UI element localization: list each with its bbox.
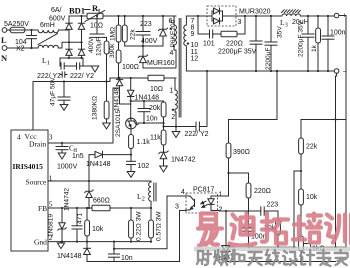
svg-text:222/ Y2: 222/ Y2 [185, 131, 209, 138]
diode 1N4148 (sense, horizontal) [86, 151, 131, 181]
wire fuse to choke [25, 29, 38, 31]
svg-text:2200μF 35V: 2200μF 35V [298, 20, 305, 57]
svg-text:1000V: 1000V [57, 164, 78, 171]
svg-text:9: 9 [191, 31, 195, 38]
svg-text:1k: 1k [311, 44, 318, 52]
svg-text:1N4148: 1N4148 [86, 161, 111, 168]
bridge bottom bus [60, 57, 83, 66]
svg-text:3: 3 [238, 19, 242, 26]
svg-text:1N4742: 1N4742 [64, 188, 71, 211]
aux winding pins 1-2 [170, 78, 178, 127]
svg-text:1.1k: 1.1k [137, 139, 151, 146]
winding L2 [137, 181, 156, 208]
capacitor 2200uF 35V #3 [298, 16, 315, 71]
capacitor 100n (output) [322, 16, 346, 71]
svg-text:1N4148: 1N4148 [57, 253, 82, 260]
IC IRIS4015 [11, 130, 53, 251]
resistor 22k (clamp) [122, 16, 136, 46]
svg-text:223: 223 [140, 21, 152, 28]
svg-text:390k: 390k [109, 43, 116, 58]
clamp return wire to pin4 [143, 50, 176, 68]
thermistor Rt 10ohm [85, 3, 105, 30]
resistor 1M [110, 16, 122, 42]
terminal - output [334, 69, 346, 247]
resistor 100ohm vertical [116, 42, 139, 79]
svg-text:Gnd: Gnd [34, 238, 47, 247]
svg-text:Source: Source [26, 178, 47, 187]
resistor 1k [311, 16, 321, 71]
svg-text:1380KΩ: 1380KΩ [92, 96, 99, 120]
capacitor 223 (fb) [261, 202, 278, 221]
svg-text:1N4742: 1N4742 [171, 157, 196, 164]
resistor 10ohm (Vcc) [148, 75, 176, 93]
ref tap wire [294, 171, 301, 247]
svg-text:12: 12 [191, 56, 199, 63]
svg-text:660Ω: 660Ω [93, 198, 110, 205]
svg-text:5: 5 [49, 200, 53, 209]
svg-text:101: 101 [203, 41, 215, 48]
ground wire (pin2) [48, 241, 152, 243]
secondary ground rail [186, 70, 334, 72]
svg-text:22k: 22k [306, 144, 318, 151]
main DC bus wire [96, 15, 176, 17]
svg-text:5A250V: 5A250V [4, 21, 29, 28]
svg-text:10n: 10n [146, 116, 158, 123]
BD1 diode top-right [78, 16, 84, 49]
watermark gray text 射频和天线设计专家 (vector) [197, 250, 348, 266]
transformer secondary winding [184, 16, 199, 71]
diode 1N4148 drain clamp [113, 79, 131, 144]
capacitor 10n (bottom) [109, 242, 133, 262]
resistor 0.22ohm 3W [129, 208, 143, 242]
capacitor 2200uF 35V #1 [218, 16, 262, 71]
diode 1N4148 (bottom) [84, 242, 91, 262]
terminal N [1, 46, 8, 63]
PC817 pin4 wire [113, 196, 186, 250]
svg-text:FB: FB [38, 204, 47, 213]
bottom rail (secondary) [226, 260, 336, 262]
bridge rectifier BD1 labels [49, 6, 90, 23]
svg-text:1N4148: 1N4148 [135, 95, 160, 102]
secondary top wire [186, 15, 207, 17]
svg-text:471: 471 [77, 213, 84, 224]
svg-text:X2: X2 [16, 46, 25, 53]
chassis ground below bridge [88, 66, 99, 72]
resistor 1kohm [299, 236, 346, 262]
capacitor 47uF 50V [50, 77, 71, 111]
svg-text:L: L [1, 35, 7, 45]
drain wire [48, 142, 113, 144]
svg-text:10k: 10k [92, 226, 104, 233]
source wire [48, 180, 151, 182]
collector node wire [136, 122, 164, 124]
svg-text:1N5819: 1N5819 [48, 214, 55, 237]
svg-text:2200μF: 2200μF [265, 48, 272, 71]
BD1 diode top-left [66, 16, 72, 49]
svg-text:10Ω: 10Ω [150, 86, 163, 93]
Y-capacitor 222/Y2 (isolation) [176, 71, 209, 138]
capacitor C8 1n5 1000V [56, 143, 84, 171]
inductor L3 20uH [280, 10, 309, 29]
svg-text:2: 2 [171, 114, 175, 121]
svg-text:6: 6 [169, 18, 173, 25]
resistor 0.57ohm 3W [149, 208, 163, 242]
resistor 1380k [92, 82, 111, 130]
svg-text:220Ω: 220Ω [226, 41, 243, 48]
svg-text:120μF: 120μF [96, 37, 103, 56]
svg-text:10n: 10n [121, 255, 133, 262]
svg-text:BD1: BD1 [69, 6, 85, 16]
transformer core [179, 19, 181, 118]
resistor 20k [149, 101, 166, 130]
diode 1N5819 [48, 208, 67, 242]
svg-text:3: 3 [49, 133, 53, 142]
zener 1N4742 (aux) [159, 151, 196, 172]
bottom loop wire [87, 211, 186, 262]
svg-text:2200μF 35V: 2200μF 35V [218, 49, 257, 56]
svg-text:3: 3 [175, 204, 179, 211]
resistor 10k (FB) [85, 207, 104, 242]
feedback ref wire [226, 246, 296, 248]
svg-text:1: 1 [170, 88, 174, 95]
FB wire [48, 207, 92, 209]
svg-text:102: 102 [138, 163, 150, 170]
svg-text:1MΩ: 1MΩ [110, 27, 117, 41]
BD1 diode bottom-right [78, 49, 84, 58]
svg-text:35V: 35V [277, 26, 284, 38]
PC817 pin1 wire [218, 173, 229, 196]
terminal L [1, 28, 7, 45]
divider top wire [301, 118, 346, 247]
Y2 capacitor left 222/Y2 [37, 63, 77, 80]
diode 1N4148 base feed [128, 78, 160, 102]
diode MUR160 [138, 45, 174, 68]
PC817 pin2 wire [218, 210, 261, 212]
wire N to choke [7, 47, 38, 49]
svg-text:100Ω: 100Ω [122, 64, 139, 71]
svg-text:22k: 22k [130, 29, 137, 40]
snubber drop wire [198, 16, 210, 34]
common-mode choke L1 6mH [38, 22, 58, 67]
svg-text:4: 4 [170, 50, 174, 57]
svg-text:IRIS4015: IRIS4015 [13, 162, 44, 171]
svg-text:1n5: 1n5 [72, 153, 84, 160]
rectifier MUR3020 (dashed box with dual diode) [207, 6, 271, 26]
capacitor 104 X2 [15, 29, 37, 53]
clamp node wire [125, 45, 163, 47]
svg-text:100n: 100n [330, 30, 346, 37]
transistor 2SA1015 [115, 101, 137, 137]
capacitor 10n (base) [138, 101, 158, 123]
transformer T1 primary winding [169, 16, 177, 57]
svg-text:Drain: Drain [29, 140, 46, 149]
svg-text:390Ω: 390Ω [233, 149, 250, 156]
primary ground at aux [172, 125, 180, 137]
svg-text:1N4148: 1N4148 [113, 88, 120, 111]
node wire to 20k [131, 100, 164, 102]
Vcc rail wire [33, 77, 176, 130]
small inline cap glyph [60, 72, 67, 77]
resistor 1.1k [129, 135, 151, 156]
resistor 22k (divider) [299, 138, 318, 189]
resistor 220ohm (snubber) [221, 15, 246, 48]
svg-text:400V: 400V [88, 37, 95, 53]
BD1 diode bottom-left [66, 49, 72, 58]
optocoupler PC817 [175, 187, 223, 214]
svg-text:6A/: 6A/ [51, 7, 62, 14]
output rail wire [236, 15, 282, 17]
watermark red text 易迪拓培训 (vector) [198, 214, 350, 246]
svg-text:47μF 50V: 47μF 50V [50, 77, 57, 106]
terminal + output [334, 13, 346, 120]
resistor 660ohm [92, 198, 152, 211]
svg-text:10: 10 [191, 42, 199, 49]
rail after L3 [300, 15, 334, 17]
svg-text:−: − [343, 69, 347, 76]
svg-text:0.57Ω 3W: 0.57Ω 3W [156, 211, 163, 241]
resistor 10k (divider) [299, 189, 318, 236]
svg-text:1: 1 [219, 192, 223, 199]
resistor 220ohm (fb) [229, 173, 271, 228]
svg-text:0.22Ω 3W: 0.22Ω 3W [136, 211, 143, 241]
resistor 11k [150, 130, 166, 152]
bridge top bus [69, 15, 87, 17]
capacitor 223 400V [136, 16, 158, 46]
svg-text:4: 4 [181, 189, 185, 196]
svg-text:11k: 11k [150, 135, 161, 142]
svg-text:MUR160: MUR160 [147, 60, 175, 67]
wire choke to bridge (L side) [58, 29, 69, 31]
capacitor 101 [203, 30, 221, 48]
zener 1N4742 (source-FB) [64, 181, 94, 211]
resistor 30k [264, 220, 280, 248]
svg-text:PC817: PC817 [193, 187, 215, 194]
capacitor 120uF 400V [88, 16, 107, 56]
svg-text:400V: 400V [141, 38, 158, 45]
resistor 390k [104, 37, 116, 82]
svg-text:20k: 20k [149, 105, 161, 112]
Y2 capacitor right 222/Y2 [70, 63, 94, 80]
TL431 [214, 211, 234, 262]
svg-text:220Ω: 220Ω [254, 188, 271, 195]
fuse F1 5A250V [4, 21, 29, 33]
svg-text:600V: 600V [49, 16, 66, 23]
svg-text:N: N [1, 53, 8, 63]
svg-text:6mH: 6mH [40, 22, 55, 29]
svg-text:222/ Y2: 222/ Y2 [70, 73, 94, 80]
junction crossing dots on N feed [68, 41, 70, 43]
capacitor 471 [72, 208, 84, 242]
watermark underline [194, 247, 350, 252]
resistor 390ohm [226, 70, 278, 174]
svg-text:4: 4 [17, 133, 21, 142]
svg-text:2SA1015: 2SA1015 [115, 110, 122, 137]
TVS P6KE200 [159, 16, 177, 48]
node wire 20k-11k to pin2 [162, 125, 176, 127]
wire choke to bridge (N side) [58, 42, 81, 48]
svg-text:MUR3020: MUR3020 [239, 9, 271, 16]
capacitor 2200uF 35V #2 [265, 16, 284, 71]
primary ground symbol [57, 242, 82, 260]
capacitor 102 [127, 155, 150, 178]
svg-text:223: 223 [267, 202, 279, 209]
capacitor 100n (fb) [243, 228, 267, 248]
svg-text:10k: 10k [306, 194, 318, 201]
